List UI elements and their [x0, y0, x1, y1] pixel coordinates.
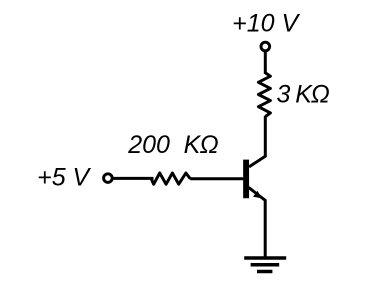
svg-text:+10 V: +10 V [232, 9, 300, 37]
svg-text:+5 V: +5 V [37, 164, 91, 192]
terminal +10 V [261, 42, 270, 51]
svg-text:KΩ: KΩ [295, 80, 329, 108]
transistor Q1 emitter lead and wire to ground [249, 187, 266, 258]
ground [244, 258, 286, 272]
resistor R2 200 KΩ [151, 173, 190, 184]
svg-text:KΩ: KΩ [184, 131, 219, 159]
transistor Q1 base bar [243, 160, 249, 199]
wire terminal to resistor R1 [264, 52, 267, 74]
wire resistor R2 to base [190, 177, 243, 180]
terminal +5 V [104, 174, 113, 183]
svg-text:200: 200 [127, 131, 170, 159]
wire resistor R1 to collector, transistor Q1 collector lead [249, 116, 265, 167]
resistor R1 3 KΩ [258, 73, 270, 117]
wire terminal to resistor R2 [113, 177, 154, 180]
svg-text:3: 3 [277, 80, 291, 108]
transistor Q1 emitter arrow [253, 191, 261, 199]
